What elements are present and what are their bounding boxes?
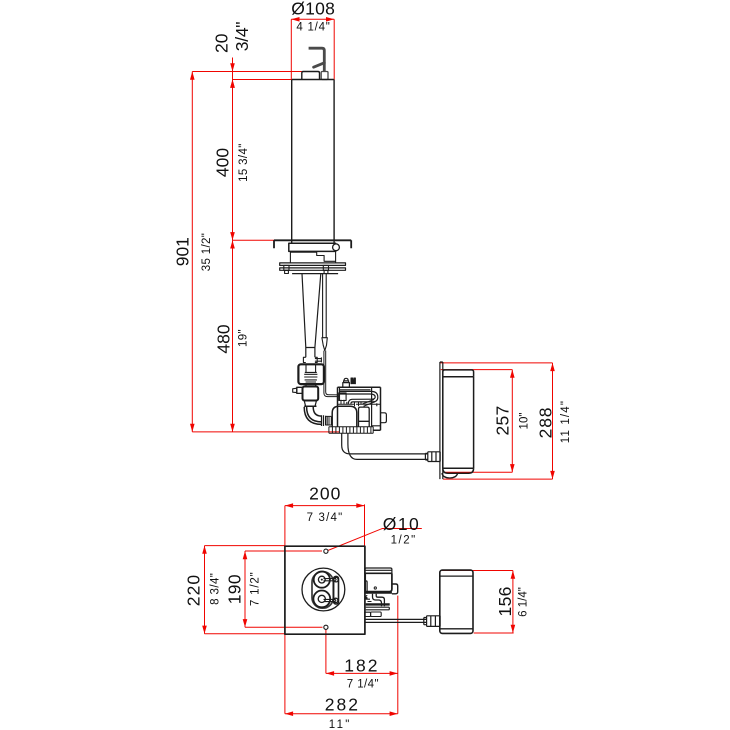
dim 288 top extension xyxy=(440,362,553,364)
solenoid tube loop inner xyxy=(340,394,375,404)
box bottom band xyxy=(443,468,474,473)
link bar xyxy=(334,576,339,604)
182 arrows xyxy=(326,671,334,676)
svg-text:4 1/4": 4 1/4" xyxy=(296,21,330,33)
cylinder body xyxy=(292,80,334,244)
dim 20 vertical line xyxy=(232,58,234,95)
20 arrows (outside) xyxy=(230,63,235,71)
connecting rods xyxy=(324,579,337,602)
dim 257 top extension xyxy=(441,369,513,371)
coupling internals xyxy=(304,364,317,382)
dimension arrowheads xyxy=(190,17,555,716)
spout hook xyxy=(309,48,325,71)
under-flange plate line xyxy=(292,273,338,275)
svg-text:15 3/4": 15 3/4" xyxy=(238,143,250,182)
solenoid mid band xyxy=(338,400,381,407)
box back plate xyxy=(440,362,443,479)
plan valve left tube xyxy=(366,596,372,602)
elbow xyxy=(304,406,321,424)
coil block xyxy=(372,387,381,427)
svg-text:156: 156 xyxy=(495,586,515,616)
coil tab xyxy=(381,413,387,423)
svg-text:7 3/4": 7 3/4" xyxy=(307,512,344,524)
282 arrows xyxy=(285,711,293,716)
svg-text:6 1/4": 6 1/4" xyxy=(518,587,530,617)
dim 182 line xyxy=(326,672,398,674)
svg-text:10": 10" xyxy=(519,413,531,430)
svg-text:480: 480 xyxy=(214,324,234,353)
cylinder cap xyxy=(302,72,320,80)
clamp screw xyxy=(315,357,322,362)
plan valve left strip xyxy=(365,581,367,594)
svg-text:901: 901 xyxy=(173,237,193,266)
svg-text:35 1/2": 35 1/2" xyxy=(201,233,213,271)
flange bolts xyxy=(284,265,289,270)
plan valve S-tube xyxy=(373,594,385,607)
dim 156 bottom extension xyxy=(474,632,514,634)
svg-text:3/4": 3/4" xyxy=(232,22,252,51)
svg-text:400: 400 xyxy=(213,148,233,177)
dim 220 extensions xyxy=(205,545,285,547)
bottom bump xyxy=(442,473,458,478)
svg-text:8 3/4": 8 3/4" xyxy=(210,573,222,605)
solenoid inner rails xyxy=(340,387,377,406)
box top lip xyxy=(443,370,474,377)
400 arrows xyxy=(230,80,235,88)
elbow flange xyxy=(322,415,326,426)
dim 257 bottom extension xyxy=(445,471,512,473)
901 arrows xyxy=(190,72,195,80)
coupling block xyxy=(298,364,324,384)
plan tube to box xyxy=(365,619,427,622)
dim 200 extensions xyxy=(284,506,286,547)
hole circles on leader xyxy=(324,549,328,553)
plan valve top band xyxy=(365,568,392,573)
neck xyxy=(306,384,316,386)
tailpiece taper xyxy=(302,274,321,358)
extension at counter level xyxy=(233,239,275,241)
dim 190 extensions xyxy=(245,550,322,552)
dim 901 line xyxy=(191,72,193,432)
dim Ø108 line xyxy=(291,18,334,20)
bottom reference extension line xyxy=(192,431,339,433)
sensor tube tip xyxy=(322,338,327,351)
480 arrows xyxy=(230,240,235,248)
upper port circle xyxy=(314,572,330,588)
220 arrows xyxy=(202,546,207,554)
svg-text:7 1/4": 7 1/4" xyxy=(347,679,379,691)
plan valve right tab xyxy=(392,584,398,594)
flange bar 2 xyxy=(280,268,346,270)
spout base block xyxy=(321,72,328,80)
dim 288 line xyxy=(552,363,554,479)
svg-text:257: 257 xyxy=(493,405,513,435)
plan valve lower bands xyxy=(366,604,390,610)
svg-text:1/2": 1/2" xyxy=(391,534,417,546)
dim 257 line xyxy=(511,370,513,473)
plan valve main body xyxy=(365,573,392,591)
svg-text:282: 282 xyxy=(325,694,360,714)
svg-text:288: 288 xyxy=(536,407,556,439)
escutcheon block xyxy=(289,243,336,251)
elbow-solenoid connector ribs xyxy=(326,416,332,425)
small cylinder xyxy=(359,407,370,427)
under-body trapezoid xyxy=(304,401,316,407)
156 arrows xyxy=(511,571,516,579)
solenoid body xyxy=(338,387,381,430)
sensor cable xyxy=(324,351,339,397)
dim 200 line xyxy=(285,505,365,507)
sensor tube xyxy=(323,274,327,338)
dim 282 extension xyxy=(284,634,286,714)
box body xyxy=(443,377,474,468)
svg-text:Ø108: Ø108 xyxy=(291,0,335,18)
svg-text:19": 19" xyxy=(238,329,250,347)
spigot tip xyxy=(293,388,297,392)
dim 480 line xyxy=(232,240,234,432)
diaphragm dome xyxy=(332,406,357,426)
mounting plate xyxy=(285,546,365,634)
dim 282 line xyxy=(285,713,398,715)
dim 20 top extension xyxy=(192,71,301,73)
288 arrows xyxy=(550,363,555,371)
plan valve thick bottom edge xyxy=(365,592,392,594)
spigot body xyxy=(297,387,303,393)
counter / wall line xyxy=(274,240,351,248)
dim 220 line xyxy=(204,546,206,634)
dim 182 extensions xyxy=(325,630,327,674)
sensor circle on escutcheon xyxy=(333,244,340,251)
svg-text:7 1/2": 7 1/2" xyxy=(250,571,262,606)
link screws xyxy=(334,578,338,582)
200 arrows xyxy=(285,503,293,508)
solenoid vent cap xyxy=(343,378,350,387)
257 arrows xyxy=(510,370,515,378)
Ø108 arrows xyxy=(291,17,299,22)
plan valve lower blocks xyxy=(365,612,371,616)
tube nut at box xyxy=(425,452,440,462)
dim 190 line xyxy=(244,551,246,627)
svg-text:Ø10: Ø10 xyxy=(383,514,421,534)
outlet tube down and right xyxy=(342,433,428,459)
svg-text:11 1/4": 11 1/4" xyxy=(560,400,572,443)
plan tube nut xyxy=(424,616,440,627)
190 arrows xyxy=(243,551,248,559)
big circle xyxy=(302,568,345,611)
solenoid tube loop outer xyxy=(340,391,378,404)
svg-text:20: 20 xyxy=(212,33,232,53)
dim 156 top extension xyxy=(442,570,513,572)
tail flare xyxy=(303,357,317,362)
svg-text:11": 11" xyxy=(329,719,352,730)
dim 20 bottom extension xyxy=(233,79,293,81)
valve body xyxy=(303,387,319,401)
leader Ø10 xyxy=(328,529,422,551)
dim Ø108 extension lines xyxy=(290,19,292,79)
svg-text:182: 182 xyxy=(344,655,379,675)
step profile under escutcheon xyxy=(290,251,335,263)
flange bar 1 xyxy=(280,263,346,266)
dim 400 line xyxy=(232,80,234,241)
plan control box xyxy=(440,570,473,633)
svg-text:190: 190 xyxy=(225,574,245,604)
dim 288 bottom extension xyxy=(443,478,553,480)
svg-text:220: 220 xyxy=(184,574,204,606)
lower port circle xyxy=(313,591,330,608)
solenoid connector (black) xyxy=(351,378,355,384)
rib comb xyxy=(329,427,373,433)
cable connector blocks xyxy=(339,393,346,401)
svg-text:200: 200 xyxy=(309,484,341,504)
dim 156 line xyxy=(512,571,514,634)
stadium outline xyxy=(312,572,333,609)
